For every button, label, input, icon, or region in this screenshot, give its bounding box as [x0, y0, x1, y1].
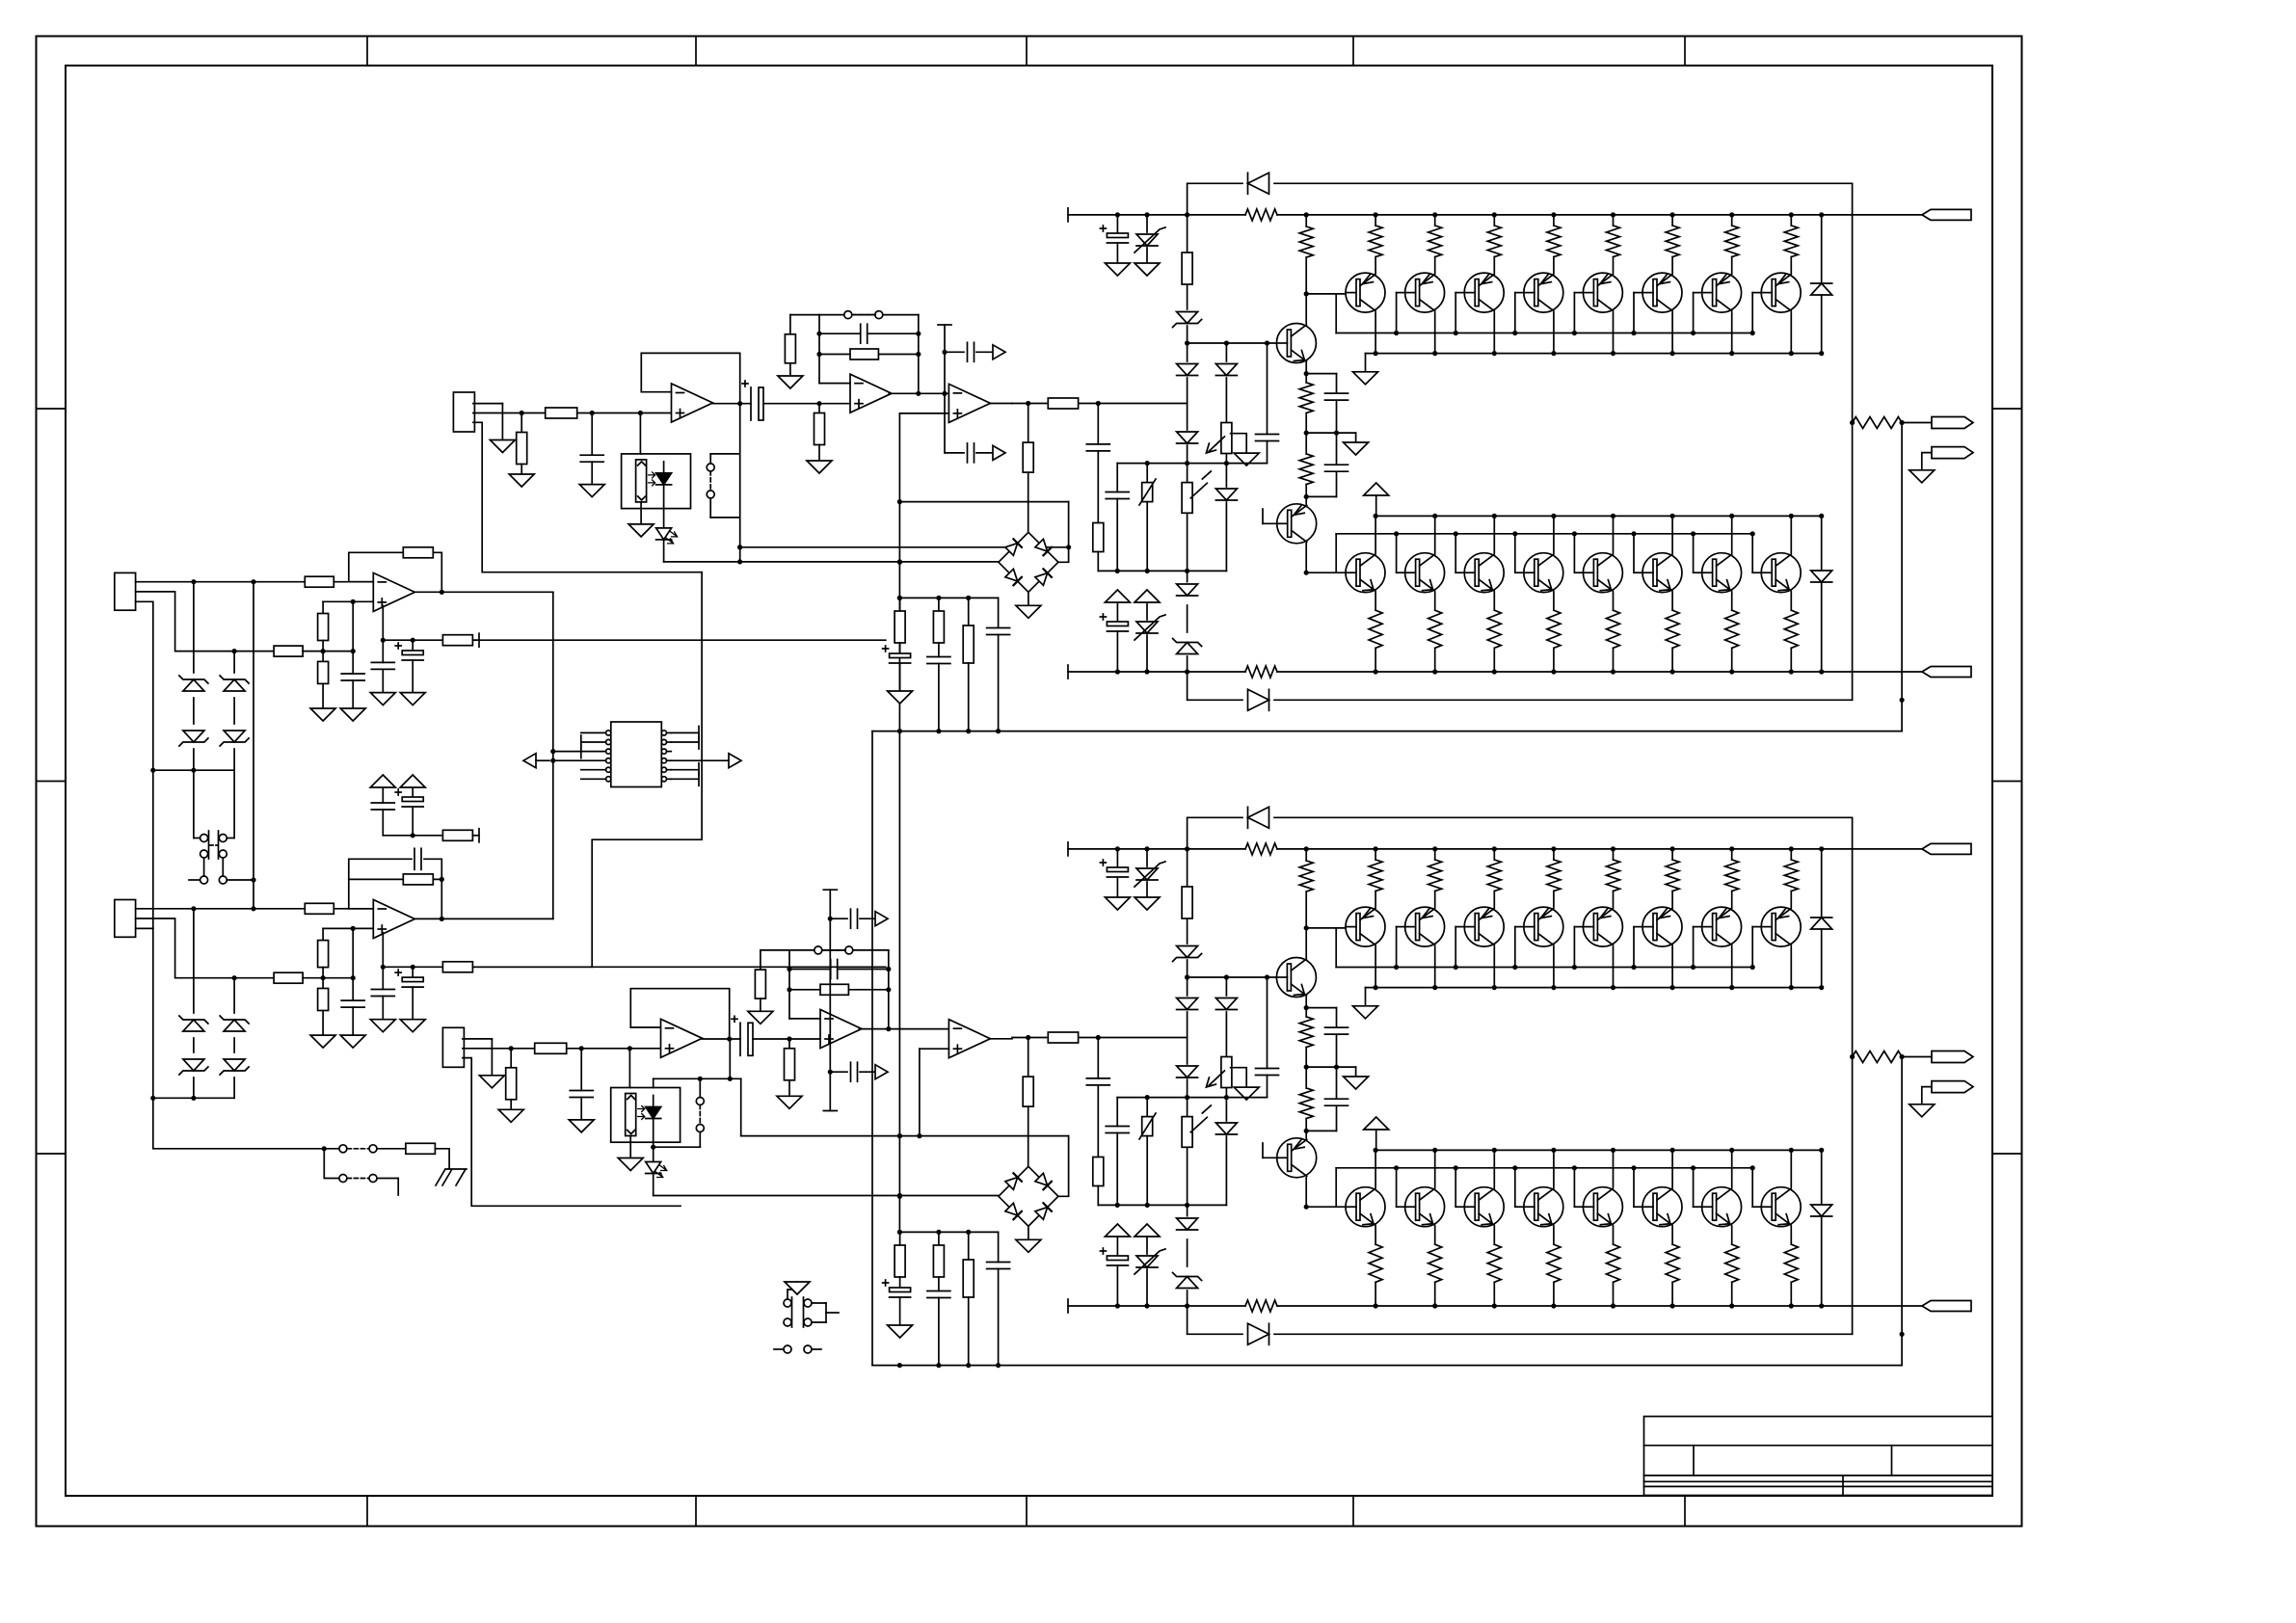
transistor QT4 ch2: [1524, 907, 1563, 946]
wire vplus row: [383, 833, 442, 838]
capacitor C rail- ch1: [1100, 614, 1128, 675]
capacitor C comp1 ch1: [945, 342, 993, 361]
resistor R et5 ch2: [1607, 846, 1620, 907]
resistor R fb in A: [403, 547, 433, 558]
capacitor C bias ch1: [1256, 343, 1279, 464]
diode D catch top ch2: [1248, 807, 1269, 828]
transistor QB3 ch2: [1464, 1187, 1504, 1227]
wire in seg2 ch1: [577, 411, 672, 415]
trimmer RP1 ch1: [1206, 423, 1232, 454]
wire out flag2 ch1: [1922, 453, 1932, 470]
wire U2 out ch1: [889, 392, 948, 394]
wire driver base ch1: [1276, 342, 1289, 344]
transistor QB5 ch1: [1583, 553, 1622, 593]
capacitor C c4 ch1: [987, 598, 1010, 733]
trimmer RP1 ch2: [1206, 1057, 1232, 1088]
ground out return ch1: [1909, 470, 1935, 483]
connector J input A: [115, 572, 136, 610]
resistor rail R ch1c: [1245, 666, 1277, 678]
wire clamp bus A: [150, 768, 234, 773]
op-amp U1 ch1: [672, 384, 713, 422]
wire input ch1: [1012, 401, 1188, 406]
resistor R fb gnd ch1: [785, 334, 795, 376]
resistor R eb3 ch2: [1487, 1227, 1501, 1309]
wire top collector bus ch2: [1366, 946, 1825, 1006]
wire catch bot ch1: [1188, 672, 1853, 700]
wire U1 out ch1: [712, 403, 751, 405]
resistor R et2 ch1: [1428, 212, 1442, 273]
transistor QB6 ch1: [1642, 553, 1682, 593]
diode D clamp top ch2: [1811, 846, 1832, 987]
resistor R et1 ch2: [1369, 846, 1382, 907]
frame zone ticks: [37, 37, 2022, 1527]
ground conn ch1: [490, 440, 515, 453]
wire mute route: [592, 572, 702, 968]
resistor R bias ch1: [1182, 253, 1192, 284]
zener D clamp b1 A: [220, 676, 249, 691]
resistor R eb5 ch1: [1607, 593, 1620, 675]
wire couple out ch2: [753, 1036, 820, 1041]
power arrow -dec1 ch2: [1105, 1224, 1130, 1256]
capacitor C rail+ ch2: [1100, 846, 1128, 897]
zener D clamp a2 B: [179, 1059, 208, 1075]
resistor rail R ch1a: [1245, 209, 1277, 221]
bridge rectifier ch2: [999, 1166, 1058, 1226]
resistor R eb7 ch1: [1725, 593, 1739, 675]
resistor R bias2 ch2: [785, 1039, 795, 1096]
wire conn pin2 ch1: [473, 411, 546, 415]
arrow comp1 ch1: [993, 345, 1005, 359]
wire plus seg B: [303, 975, 356, 980]
wire bias bus ch2: [1117, 1095, 1267, 1100]
ground top bus ch1: [1353, 372, 1378, 385]
varistor RV rail- ch1: [1135, 615, 1165, 675]
transistor QT4 ch1: [1524, 273, 1563, 312]
connector J input B: [115, 900, 136, 938]
wire plus riser B: [323, 926, 373, 978]
ground R term ch2: [498, 1109, 523, 1122]
capacitor C fb ch1: [861, 324, 868, 343]
resistor R vas ch1: [1299, 212, 1313, 294]
resistor R input ch1: [1048, 398, 1078, 409]
resistor R zobel ch1: [1023, 404, 1033, 533]
power flag +V ch1: [1922, 209, 1971, 220]
resistor R out ch2: [1853, 1051, 1903, 1063]
wire shield drop A: [136, 601, 153, 770]
capacitor C plus B: [341, 978, 364, 1035]
ground rail+ cap ch1: [1105, 263, 1130, 276]
power flag -V ch2: [1922, 1301, 1971, 1312]
ground C v1 A: [370, 693, 395, 705]
diode D bias4 ch1: [1177, 584, 1198, 596]
op-amp U1 ch2: [661, 1019, 703, 1057]
wire U3 out ch1: [990, 403, 1012, 405]
wire bot base line ch2: [1306, 1206, 1346, 1208]
wire ic pin4 left: [553, 751, 581, 753]
capacitor C comp1 ch2: [830, 909, 875, 928]
wire U3 plus ch1: [899, 412, 948, 414]
wire pot wiper gnd ch2: [1231, 1068, 1247, 1087]
wire ic pin5 left: [553, 759, 581, 761]
transistor Q1 driver ch2: [1276, 958, 1316, 998]
capacitor C rail- ch2: [1100, 1248, 1128, 1309]
capacitor C fb in B: [414, 848, 421, 869]
resistor R c2 ch2: [933, 1232, 944, 1290]
flag output ch1: [1932, 417, 1973, 429]
resistor R et3 ch1: [1487, 212, 1501, 273]
power flag -V ch1: [1922, 667, 1971, 678]
wire lower node ch1: [1304, 494, 1337, 499]
wire minus seg B: [334, 908, 373, 910]
wire in seg2 ch2: [567, 1046, 661, 1051]
wire bias low line ch1: [1098, 569, 1226, 573]
transistor QB2 ch2: [1405, 1187, 1445, 1227]
wire shield long A: [152, 770, 154, 928]
resistor R e1 ch2: [1299, 1008, 1313, 1068]
ground c1 ch1: [888, 691, 913, 704]
resistor R c1 ch2: [894, 1232, 905, 1288]
wire comp vert2 ch1: [944, 393, 946, 453]
wire output line ch2: [872, 1363, 1902, 1368]
transistor QB6 ch2: [1642, 1187, 1682, 1227]
resistor R et2 ch2: [1428, 846, 1442, 907]
switch SW2: [189, 858, 254, 884]
wire bridge gnd ch1: [1028, 592, 1029, 605]
wire conn pin2 ch2: [463, 1046, 535, 1051]
varistor RV rail+ ch1: [1135, 212, 1165, 263]
wire minus seg A: [334, 581, 373, 583]
switch SW6 row2: [339, 1175, 377, 1183]
wire plus seg A: [303, 649, 356, 653]
wire top base line ch2: [1306, 927, 1346, 929]
resistor R input ch2: [1048, 1032, 1078, 1043]
flag output return ch2: [1932, 1081, 1973, 1093]
resistor R eb8 ch1: [1784, 593, 1798, 675]
resistor R in ch1: [546, 408, 577, 418]
diode D catch bot ch2: [1248, 1323, 1269, 1344]
wire cluster top ch1: [897, 596, 999, 600]
ground opto ch2: [618, 1158, 643, 1171]
ground conn ch2: [479, 1076, 504, 1088]
wire v route B: [472, 966, 592, 968]
wire vee line A: [381, 606, 886, 643]
wire U out A: [414, 591, 553, 593]
capacitor C v1 B: [371, 967, 394, 1019]
wire couple out ch1: [763, 401, 850, 406]
resistor R eb7 ch2: [1725, 1227, 1739, 1309]
capacitor C e2 ch1: [1325, 433, 1348, 496]
resistor R fb gnd ch2: [755, 970, 765, 1011]
wire catch top ch1: [1188, 183, 1855, 700]
capacitor C v1 A: [371, 640, 394, 692]
resistor R b1 A: [318, 601, 329, 651]
diode D bias3 ch1: [1177, 432, 1198, 443]
power arrow -dec2 ch1: [1135, 590, 1160, 620]
capacitor C rail+ ch1: [1100, 212, 1128, 263]
arrow comp1 ch2: [875, 912, 888, 926]
wire conn pin1 ch1: [473, 404, 503, 440]
resistor rail R ch2a: [1245, 843, 1277, 855]
wire bot base bus ch2: [1336, 1165, 1761, 1207]
ground R bias2 ch1: [807, 461, 832, 473]
ground R bias2 ch2: [777, 1096, 802, 1108]
wire U fb cap B: [349, 859, 444, 882]
transistor QT1 ch2: [1346, 907, 1385, 946]
arrow comp2 ch2: [875, 1065, 888, 1079]
wire bias bus ch1: [1117, 461, 1267, 466]
transistor QT3 ch1: [1464, 273, 1504, 312]
capacitor C c1 ch2: [883, 1280, 911, 1325]
optocoupler led ch2: [638, 1096, 661, 1143]
ground C v2 B: [400, 1020, 425, 1032]
zener D bias5 ch1: [1173, 639, 1202, 654]
capacitor C v3: [371, 803, 394, 836]
capacitor C comp2 ch1: [945, 443, 993, 463]
wire conn pin3 ch1: [473, 422, 702, 572]
wire out drop ch2: [1900, 1057, 1905, 1366]
resistor R et1 ch1: [1369, 212, 1382, 273]
wire bias chain ch2: [1185, 846, 1189, 1308]
resistor R fb ch1: [850, 349, 878, 359]
resistor R eb1 ch1: [1369, 593, 1382, 675]
resistor R et6 ch2: [1666, 846, 1679, 907]
wire ldr tap ch1: [639, 413, 641, 454]
wire ldr tap ch2: [628, 1049, 630, 1089]
wire U1 out ch2: [702, 1038, 740, 1040]
wire U1 fb ch2: [630, 989, 732, 1042]
transistor Q2 driver ch1: [1277, 504, 1317, 544]
power arrow -dec1 ch1: [1105, 590, 1130, 622]
led D mute ch2: [646, 1142, 667, 1195]
wire Q2 collector ch1: [1304, 544, 1309, 575]
ground mid ch1: [1344, 442, 1369, 455]
resistor R bias2 ch1: [814, 404, 825, 461]
resistor R e2 ch1: [1299, 433, 1313, 496]
switch opto bypass ch1: [707, 454, 742, 550]
varistor RV rail- ch2: [1135, 1249, 1165, 1309]
power arrow bot bus ch1: [1364, 483, 1389, 516]
diode D catch bot ch1: [1248, 689, 1269, 710]
connector J preamp ch2: [442, 1027, 464, 1067]
ground C v1 B: [370, 1020, 395, 1032]
wire pot wiper gnd ch1: [1231, 434, 1247, 453]
resistor R eb2 ch2: [1428, 1227, 1442, 1309]
wire U3 out ch2: [990, 1038, 1012, 1040]
terminal v3: [472, 829, 479, 842]
terminal v A: [472, 633, 479, 647]
wire output vertical: [871, 732, 873, 1366]
wire opto link ch1: [737, 404, 742, 562]
resistor R bias ch2: [1182, 887, 1192, 918]
transistor QT5 ch2: [1583, 907, 1622, 946]
wire polarity link: [251, 582, 255, 909]
wire sense vertical: [897, 413, 902, 1233]
wire bot collector bus ch1: [1374, 514, 1825, 553]
resistor R eb2 ch1: [1428, 593, 1442, 675]
wire sense h ch1: [899, 502, 1068, 563]
transistor QB1 ch1: [1346, 553, 1385, 593]
wire opto row ch1: [740, 545, 1071, 549]
transistor QT6 ch1: [1642, 273, 1682, 312]
wire clamp b B: [233, 978, 235, 1099]
transistor QT2 ch1: [1405, 273, 1445, 312]
ground C plus A: [340, 708, 365, 721]
diode D pot ch1: [1215, 364, 1237, 376]
resistor R eb8 ch2: [1784, 1227, 1798, 1309]
wire Q2 base ch2: [1263, 1143, 1277, 1157]
wire catch top ch2: [1188, 817, 1855, 1334]
switch SW3 ch2: [784, 1282, 839, 1327]
capacitor C e2 ch2: [1325, 1067, 1348, 1131]
zener D clamp b1 B: [220, 1016, 249, 1031]
resistor R et8 ch2: [1784, 846, 1798, 907]
resistor R et4 ch2: [1547, 846, 1561, 907]
wire bias low line ch2: [1098, 1203, 1226, 1208]
wire Q2 emitter ch1: [1305, 496, 1307, 504]
transistor Q2 driver ch2: [1277, 1138, 1317, 1178]
ground rail+ cap ch2: [1105, 897, 1130, 910]
wire bias chain ch1: [1185, 212, 1189, 674]
varistor RV bus ch2: [1139, 1098, 1156, 1206]
op-amp U input B: [373, 900, 414, 939]
capacitor C in gnd ch2: [570, 1049, 593, 1120]
ground out return ch2: [1909, 1104, 1935, 1117]
flag output ch2: [1932, 1051, 1973, 1063]
wire top base line ch1: [1306, 293, 1346, 295]
wire U2 out ch2: [859, 1028, 948, 1030]
sheet outer border: [37, 37, 2022, 1527]
wire vee line B: [381, 933, 886, 970]
resistor R in ch2: [535, 1043, 567, 1053]
transistor QB5 ch2: [1583, 1187, 1622, 1227]
wire driver base ch2: [1276, 976, 1289, 978]
ground mid ch2: [1344, 1077, 1369, 1089]
zener D clamp a1 B: [179, 1016, 208, 1031]
jumper JP ch2: [814, 946, 853, 954]
zener D bias1 ch2: [1173, 946, 1202, 962]
capacitor C c2 ch2: [927, 1291, 950, 1369]
wire out flag ch2: [1900, 1054, 1933, 1059]
switch opto bypass ch2: [651, 1039, 741, 1150]
diode D catch top ch1: [1248, 173, 1269, 194]
varistor RV bus ch1: [1139, 464, 1156, 572]
capacitor C v2 B: [395, 967, 423, 1019]
resistor R v3: [442, 830, 472, 840]
power arrow sw3: [785, 1282, 810, 1294]
resistor R c2 ch1: [933, 598, 944, 656]
wire comp vert ch2: [823, 890, 837, 1072]
wire cluster top ch2: [897, 1230, 999, 1235]
chassis ground: [436, 1169, 467, 1185]
capacitor C couple ch2: [732, 1016, 753, 1055]
resistor R c1 ch1: [894, 598, 905, 653]
transistor QB8 ch1: [1761, 553, 1801, 593]
ground C plus B: [340, 1035, 365, 1048]
wire sense h ch2: [741, 1133, 1069, 1196]
wire bot collector bus ch2: [1374, 1148, 1825, 1187]
wire U2 feedback ch2: [761, 950, 892, 1031]
wire conn pin1 ch2: [463, 1039, 493, 1076]
transistor QT2 ch2: [1405, 907, 1445, 946]
zener D bias1 ch1: [1173, 312, 1202, 328]
transistor QT3 ch2: [1464, 907, 1504, 946]
op-amp U3 ch1: [948, 384, 990, 422]
power arrow -dec2 ch2: [1135, 1224, 1160, 1254]
wire U3 plus ch2: [920, 1048, 949, 1050]
diode D clamp bot ch1: [1811, 516, 1832, 674]
transistor QB7 ch1: [1702, 553, 1742, 593]
capacitor C fb ch2: [831, 960, 838, 979]
wire mid node ch1: [1304, 431, 1356, 443]
wire out flag ch1: [1900, 420, 1933, 425]
wire Q1 collector ch1: [1304, 291, 1309, 323]
transistor QB4 ch1: [1524, 553, 1563, 593]
ground b2 A: [310, 708, 335, 721]
wire led row ch1: [664, 559, 999, 564]
resistor R et3 ch2: [1487, 846, 1501, 907]
resistor R plus B: [274, 972, 303, 983]
wire out flag2 ch2: [1922, 1087, 1932, 1104]
wire ic link: [550, 592, 555, 918]
resistor R minus B: [305, 903, 334, 914]
wire top base bus ch2: [1336, 927, 1761, 971]
wire bottom row1: [153, 1098, 406, 1151]
wire U fb B: [349, 879, 444, 921]
arrow ic right: [671, 754, 741, 768]
diode D bias2 ch1: [1177, 364, 1198, 376]
transistor QB4 ch2: [1524, 1187, 1563, 1227]
capacitor C c2 ch1: [927, 657, 950, 734]
wire bridge gnd ch2: [1028, 1226, 1029, 1239]
resistor R b2 B: [318, 978, 329, 1035]
zener D clamp b2 A: [220, 731, 249, 746]
capacitor C e1 ch2: [1306, 1008, 1348, 1068]
capacitor C couple ch1: [742, 381, 763, 420]
resistor R eb6 ch1: [1666, 593, 1679, 675]
resistor R fb ch2: [820, 984, 848, 995]
ground R term ch1: [509, 474, 534, 487]
wire ldr stem ch1: [640, 454, 642, 524]
diode D bias3 ch2: [1177, 1066, 1198, 1078]
wire in plus B: [136, 918, 275, 980]
wire in minus A: [136, 579, 306, 584]
wire in plus A: [136, 592, 275, 653]
wire bot base bus ch1: [1336, 531, 1761, 572]
capacitor C in gnd ch1: [580, 413, 603, 485]
transistor QT7 ch2: [1702, 907, 1742, 946]
jumper JP ch1: [844, 311, 883, 319]
wire in minus B: [136, 906, 306, 911]
optocoupler U ldr ch2: [611, 1088, 681, 1143]
resistor R b2 A: [318, 652, 329, 708]
diode D pot2 ch2: [1215, 1123, 1237, 1134]
wire u3b plus drop ch2: [917, 1049, 921, 1138]
ground b2 B: [310, 1035, 335, 1048]
resistor R v B: [442, 962, 472, 972]
resistor R et5 ch1: [1607, 212, 1620, 273]
capacitor C comp2 ch2: [830, 1062, 875, 1081]
wire Q1 collector ch2: [1304, 925, 1309, 957]
transistor Q1 driver ch1: [1276, 324, 1316, 363]
power arrow v2: [400, 775, 425, 797]
capacitor C bias ch2: [1256, 977, 1279, 1098]
wire Q2 emitter ch2: [1305, 1131, 1307, 1138]
wire input col ch2: [1086, 1038, 1109, 1206]
ground top bus ch2: [1353, 1006, 1378, 1019]
optocoupler led ch1: [649, 462, 672, 509]
resistor R zobel ch2: [1023, 1038, 1033, 1167]
wire Q1 emitter ch1: [1304, 363, 1309, 377]
